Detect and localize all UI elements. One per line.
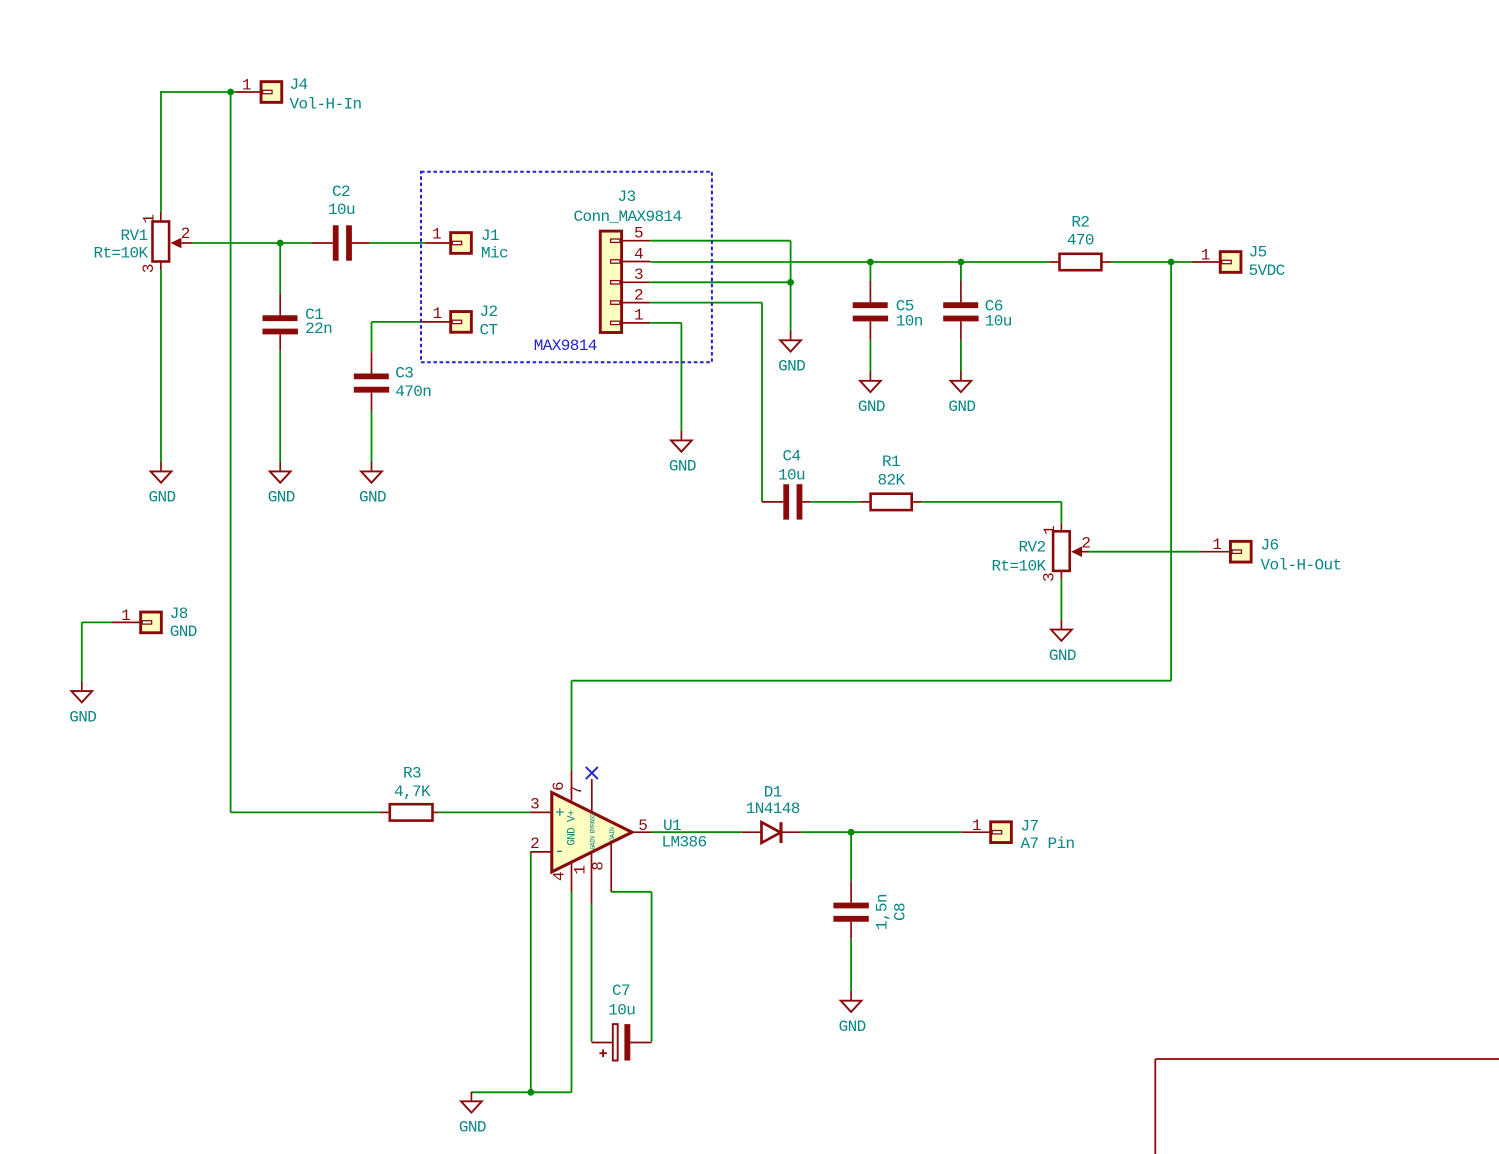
svg-text:GND: GND: [1049, 647, 1076, 665]
wire: [960, 340, 962, 372]
U1 pin 2: [530, 851, 551, 853]
svg-text:3: 3: [140, 264, 158, 273]
wire: [652, 831, 742, 833]
resistor R3: [379, 764, 438, 820]
connector J3 Conn_MAX9814: [573, 188, 681, 333]
wire: [680, 323, 682, 432]
svg-text:Mic: Mic: [481, 244, 508, 262]
wire: [650, 302, 762, 304]
wire: [571, 892, 573, 1093]
svg-text:GND: GND: [858, 398, 885, 416]
wire: [371, 322, 373, 352]
wire junction: [277, 240, 284, 247]
connector J5: [1192, 244, 1285, 280]
svg-text:C2: C2: [332, 183, 350, 201]
ground: [858, 371, 885, 416]
svg-text:-: -: [554, 843, 564, 862]
svg-text:10u: 10u: [608, 1002, 635, 1020]
U1 pin 4: [571, 862, 573, 892]
svg-text:GND: GND: [170, 623, 197, 641]
wire: [530, 852, 532, 1092]
wire: [192, 242, 312, 244]
svg-text:470n: 470n: [395, 383, 431, 401]
wire junction: [867, 259, 874, 266]
svg-text:GND: GND: [148, 489, 175, 507]
svg-text:GND V+: GND V+: [566, 810, 578, 846]
svg-text:J8: J8: [170, 605, 188, 623]
svg-text:GND: GND: [459, 1119, 486, 1137]
wire junction: [227, 89, 234, 96]
ground: [148, 462, 175, 507]
wire: [231, 811, 380, 813]
J5 pin 1: [1192, 261, 1220, 263]
connector J8: [112, 605, 197, 641]
svg-text:C4: C4: [782, 447, 800, 465]
svg-text:4: 4: [634, 245, 643, 263]
potentiometer RV2: [991, 523, 1090, 582]
wire: [438, 811, 530, 813]
wire junction: [848, 829, 855, 836]
svg-text:1: 1: [1041, 526, 1059, 535]
wire: [611, 891, 651, 893]
U1 pin 8: [610, 842, 612, 892]
wire: [761, 303, 763, 502]
svg-text:GND: GND: [839, 1018, 866, 1036]
U1 pin 3: [530, 811, 551, 813]
wire: [82, 621, 112, 623]
connector J1: [425, 226, 508, 263]
wire: [591, 904, 593, 1042]
svg-text:4: 4: [550, 872, 568, 881]
svg-text:1: 1: [432, 226, 441, 244]
ground: [669, 431, 696, 476]
svg-text:3: 3: [634, 266, 643, 284]
J2 pin 1: [421, 321, 450, 323]
svg-text:Vol-H-In: Vol-H-In: [290, 96, 362, 114]
svg-text:J1: J1: [481, 227, 499, 245]
wire: [850, 938, 852, 991]
wire: [811, 501, 861, 503]
svg-text:1,5n: 1,5n: [874, 894, 892, 930]
svg-text:J4: J4: [290, 76, 308, 94]
U1 pin 1: [591, 852, 593, 904]
wire junction: [787, 279, 794, 286]
svg-text:GND: GND: [778, 358, 805, 376]
svg-text:Rt=10K: Rt=10K: [93, 244, 148, 262]
ground: [778, 331, 805, 376]
svg-text:1N4148: 1N4148: [746, 800, 800, 818]
svg-text:1: 1: [634, 307, 643, 325]
U1 pin 6: [571, 770, 573, 800]
svg-text:J6: J6: [1261, 537, 1279, 555]
svg-text:R3: R3: [403, 764, 421, 782]
svg-text:1: 1: [1212, 536, 1221, 554]
title block frame corner: [1155, 1059, 1499, 1154]
svg-text:RV2: RV2: [1018, 539, 1045, 557]
connector J7: [962, 817, 1075, 853]
ground: [459, 1092, 486, 1137]
wire: [279, 351, 281, 463]
svg-text:GND: GND: [669, 458, 696, 476]
wire: [650, 240, 790, 242]
svg-text:10u: 10u: [985, 313, 1012, 331]
no-connect X on U1 pin 7: [586, 767, 598, 779]
svg-text:8: 8: [589, 862, 607, 871]
wire: [651, 892, 653, 1042]
wire: [869, 262, 871, 281]
svg-text:+: +: [555, 804, 564, 822]
svg-text:Rt=10K: Rt=10K: [991, 558, 1046, 576]
connector J2: [421, 303, 497, 339]
svg-text:R2: R2: [1071, 213, 1089, 231]
capacitor C7 (polarized): [592, 982, 652, 1060]
svg-text:82K: 82K: [877, 472, 905, 490]
svg-text:10n: 10n: [896, 313, 923, 331]
RV1 wiper arrow pin 2: [171, 238, 182, 249]
svg-text:J5: J5: [1249, 244, 1267, 262]
svg-text:10u: 10u: [778, 467, 805, 485]
wire: [230, 92, 232, 812]
svg-text:1: 1: [432, 305, 441, 323]
svg-text:7: 7: [568, 786, 586, 795]
J7 pin 1: [962, 831, 991, 833]
svg-text:4,7K: 4,7K: [394, 783, 431, 801]
svg-text:5: 5: [638, 817, 647, 835]
svg-text:C7: C7: [612, 982, 630, 1000]
wire junction: [527, 1089, 534, 1096]
J3 pin 5: [622, 240, 651, 242]
capacitor C2: [312, 225, 370, 260]
svg-text:5VDC: 5VDC: [1249, 262, 1285, 280]
J4 pin 1: [236, 91, 262, 93]
capacitor C8: [833, 881, 909, 938]
wire: [161, 91, 236, 93]
wire: [922, 501, 1062, 503]
svg-text:3: 3: [530, 795, 539, 813]
wire: [571, 681, 573, 771]
svg-text:1: 1: [121, 607, 130, 625]
svg-text:6: 6: [550, 782, 568, 791]
wire: [1060, 502, 1062, 523]
svg-text:LM386: LM386: [662, 833, 707, 851]
J3 pin 1: [622, 322, 651, 324]
potentiometer RV1: [93, 212, 192, 273]
svg-text:1: 1: [242, 77, 251, 95]
svg-text:GND: GND: [268, 489, 295, 507]
svg-text:Conn_MAX9814: Conn_MAX9814: [573, 208, 681, 226]
J3 pin 3: [622, 281, 651, 283]
svg-text:A7 Pin: A7 Pin: [1021, 835, 1075, 853]
svg-text:GND: GND: [948, 398, 975, 416]
wire: [650, 281, 790, 283]
C7 plus sign: [599, 1052, 607, 1054]
svg-text:10u: 10u: [328, 201, 355, 219]
resistor R1: [860, 453, 921, 510]
wire: [1060, 579, 1062, 621]
wire: [370, 242, 426, 244]
capacitor C5: [853, 281, 923, 340]
wire: [160, 91, 162, 212]
ground: [268, 462, 295, 507]
wire: [160, 270, 162, 462]
wire: [279, 243, 281, 294]
wire: [572, 680, 1172, 682]
svg-text:1: 1: [972, 817, 981, 835]
svg-text:C8: C8: [892, 903, 910, 921]
wire junction: [1168, 259, 1175, 266]
svg-text:J3: J3: [617, 188, 635, 206]
wire: [1170, 262, 1172, 681]
connector J4: [236, 76, 362, 114]
svg-text:J2: J2: [480, 303, 498, 321]
svg-text:1: 1: [571, 866, 589, 875]
dashed graphic box MAX9814 module: [421, 172, 712, 363]
op-amp U1 LM386: [530, 770, 706, 904]
svg-text:2: 2: [530, 835, 539, 853]
ground: [69, 682, 96, 727]
J8 pin 1: [112, 621, 141, 623]
resistor R2: [1050, 213, 1111, 270]
wire: [372, 321, 422, 323]
J3 pin 4: [622, 261, 651, 263]
svg-text:2: 2: [1081, 535, 1090, 553]
capacitor C4: [762, 447, 811, 519]
wire: [81, 622, 83, 682]
J3 pin 2: [622, 302, 651, 304]
svg-text:2: 2: [181, 225, 190, 243]
wire: [471, 1091, 571, 1093]
U1 pin 5 (output): [632, 831, 652, 833]
svg-text:5: 5: [634, 225, 643, 243]
ground: [359, 462, 386, 507]
wire: [1111, 261, 1192, 263]
capacitor C6: [943, 281, 1012, 340]
svg-text:J7: J7: [1021, 817, 1039, 835]
svg-text:470: 470: [1067, 232, 1094, 250]
svg-text:R1: R1: [882, 453, 900, 471]
svg-text:MAX9814: MAX9814: [534, 337, 597, 355]
svg-text:GND: GND: [69, 708, 96, 726]
svg-text:GAIN: GAIN: [609, 827, 616, 841]
svg-text:Vol-H-Out: Vol-H-Out: [1261, 556, 1342, 574]
diode D1 1N4148: [742, 784, 801, 843]
svg-text:CT: CT: [480, 321, 498, 339]
svg-text:C3: C3: [395, 365, 413, 383]
connector J6: [1201, 536, 1342, 574]
svg-text:22n: 22n: [305, 320, 332, 338]
wire: [371, 411, 373, 463]
svg-text:2: 2: [634, 286, 643, 304]
svg-text:GAIN BYPASS: GAIN BYPASS: [589, 813, 596, 850]
capacitor C1: [263, 294, 333, 351]
J6 pin 1: [1201, 551, 1231, 553]
svg-text:1: 1: [1201, 247, 1210, 265]
ground: [1049, 620, 1076, 665]
svg-text:RV1: RV1: [120, 227, 147, 245]
ground: [839, 991, 866, 1036]
wire: [790, 241, 792, 332]
ground: [948, 371, 975, 416]
wire: [650, 261, 1049, 263]
wire junction: [958, 259, 965, 266]
RV2 wiper arrow pin 2: [1071, 546, 1082, 557]
svg-text:1: 1: [141, 215, 159, 224]
wire: [1088, 551, 1201, 553]
wire: [960, 262, 962, 281]
capacitor C3: [354, 352, 432, 410]
wire: [850, 832, 852, 881]
wire: [650, 322, 681, 324]
wire: [801, 831, 962, 833]
J1 pin 1: [425, 242, 451, 244]
U1 pin 7: [591, 779, 593, 811]
wire: [869, 340, 871, 372]
svg-text:GND: GND: [359, 489, 386, 507]
